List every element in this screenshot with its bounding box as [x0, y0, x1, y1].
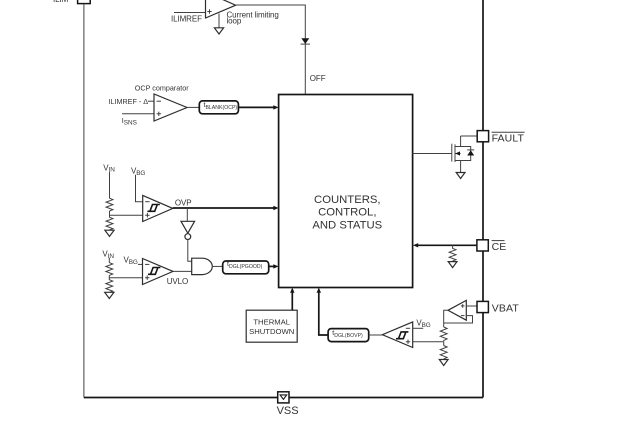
svg-text:OCP comparator: OCP comparator	[135, 84, 189, 93]
wire U10 output to divider	[444, 310, 448, 327]
svg-text:AND STATUS: AND STATUS	[312, 219, 382, 231]
block U7 COUNTERS CONTROL AND STATUS	[279, 95, 413, 288]
svg-text:ILIMREF: ILIMREF	[171, 14, 202, 23]
wire OVP branch down	[186, 208, 188, 221]
pin - of U3	[145, 201, 149, 203]
ground marker inside VSS pin	[280, 395, 287, 399]
hysteresis symbol U9	[396, 332, 408, 339]
wire BOVP comparator output	[369, 334, 383, 336]
resistor R4	[106, 278, 113, 293]
wire VBG to - input (BOVP)	[413, 327, 424, 329]
pin + of U3	[145, 213, 149, 217]
wire VSS bottom rail	[84, 397, 483, 399]
wire ILIM vertical bus	[83, 4, 85, 398]
pin CE box	[477, 240, 488, 251]
timer tDGL(BOVP)	[328, 329, 369, 342]
wire inverter to AND gate	[188, 240, 192, 262]
resistor R3	[106, 263, 113, 276]
wire ILIMREF input	[174, 12, 206, 14]
wire divider node (BOVP sense)	[443, 341, 445, 345]
pin - of U2	[157, 100, 161, 102]
comparator U3 OVP	[143, 195, 173, 221]
block U8 THERMAL SHUTDOWN	[246, 310, 297, 342]
buffer U10 VBAT (points left)	[448, 300, 466, 320]
comparator U2 OCP	[154, 94, 187, 121]
pin FAULT box	[477, 131, 488, 142]
resistor R7	[440, 346, 447, 359]
wire AND output	[212, 265, 222, 267]
wire CE to control box	[417, 244, 477, 246]
wire + input to divider (BOVP)	[413, 341, 443, 343]
wire VBG to - input	[136, 175, 143, 202]
wire OVP output to control box	[173, 207, 275, 209]
svg-text:VBAT: VBAT	[492, 303, 520, 315]
ground below Q1 source	[456, 173, 465, 179]
svg-text:CONTROL,: CONTROL,	[318, 207, 376, 219]
ground below R5	[448, 262, 457, 268]
pin + of U9	[406, 340, 410, 344]
comparator U5 UVLO	[143, 259, 174, 285]
svg-text:SHUTDOWN: SHUTDOWN	[249, 327, 294, 336]
timer tDGL(PGOOD)	[223, 261, 269, 274]
bubble of U4	[185, 234, 191, 240]
op-amp U1 current limiting loop (clipped at top)	[206, 0, 236, 18]
hysteresis symbol U5	[148, 268, 160, 275]
AND gate U6	[192, 258, 213, 274]
svg-text:loop: loop	[227, 16, 242, 25]
wire U10 feedback loop	[444, 316, 473, 323]
svg-text:ILIM: ILIM	[53, 0, 69, 4]
resistor R1	[106, 198, 113, 211]
wire PGOOD to control box	[269, 265, 275, 267]
pin - of U9	[406, 327, 410, 329]
wire thermal shutdown to control box	[291, 292, 293, 311]
wire BOVP timer to control box	[319, 292, 328, 336]
transistor Q1 FAULT pulldown	[452, 136, 461, 173]
svg-text:UVLO: UVLO	[167, 277, 188, 286]
svg-text:CE: CE	[492, 241, 507, 253]
pin - of U10	[461, 315, 465, 317]
inverter U4	[181, 221, 195, 233]
body diode D2 of Q1	[461, 147, 475, 162]
wire VIN down (UVLO)	[108, 258, 110, 263]
wire right vertical bus	[482, 0, 484, 398]
wire VIN down	[109, 172, 111, 198]
resistor R2	[106, 215, 113, 231]
wire UVLO output	[173, 270, 192, 272]
wire U1 ground stem	[218, 14, 220, 28]
diode D1	[301, 38, 309, 44]
wire OCP to control box	[238, 106, 274, 108]
wire divider node to + input	[110, 211, 143, 215]
wire U1 output	[236, 5, 306, 95]
ground below R7	[439, 360, 448, 366]
wire U2 output	[187, 106, 199, 108]
svg-text:FAULT: FAULT	[492, 132, 525, 144]
pin ILIM (clipped pin box)	[78, 0, 91, 4]
pin + of U10	[461, 304, 465, 308]
wire FAULT pin to drain	[461, 135, 478, 137]
ground below R4	[105, 292, 114, 298]
svg-text:ILIMREF - Δ: ILIMREF - Δ	[109, 97, 149, 106]
pin VBAT box	[477, 301, 488, 312]
wire divider node to + input (UVLO)	[109, 275, 142, 277]
comparator U9 BOVP (points left)	[382, 322, 412, 348]
svg-text:OFF: OFF	[310, 74, 326, 83]
svg-text:COUNTERS,: COUNTERS,	[314, 194, 381, 206]
pin + of U2	[157, 112, 161, 116]
svg-text:OVP: OVP	[175, 199, 192, 208]
ground below R2	[105, 230, 114, 236]
pin + of U1	[207, 9, 211, 13]
pin + of U5	[145, 276, 149, 280]
pin VSS box	[278, 392, 289, 403]
wire VBG to - input (UVLO)	[138, 263, 143, 265]
resistor R6	[440, 327, 447, 341]
pin - of U5	[145, 263, 149, 265]
wire gate from control box	[413, 153, 452, 155]
resistor R5 on CE line	[449, 245, 456, 261]
svg-text:THERMAL: THERMAL	[253, 318, 290, 327]
hysteresis symbol U3	[147, 205, 159, 212]
svg-text:VSS: VSS	[277, 405, 299, 417]
wire to OCP inverting input	[148, 100, 154, 102]
timer tBLANK(OCP)	[199, 101, 238, 114]
ground below U1	[214, 28, 223, 34]
wire VBAT pin to + input	[466, 305, 477, 307]
wire ISNS input	[122, 113, 154, 115]
